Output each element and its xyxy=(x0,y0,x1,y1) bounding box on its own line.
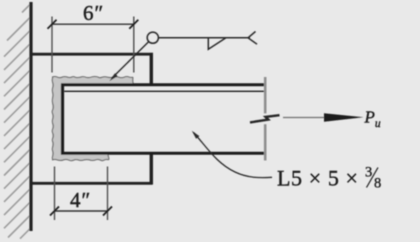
svg-text:L5 × 5 ×: L5 × 5 × xyxy=(277,166,359,191)
svg-text:6″: 6″ xyxy=(83,1,104,25)
svg-text:3: 3 xyxy=(365,165,372,181)
svg-text:8: 8 xyxy=(374,176,381,192)
svg-text:4″: 4″ xyxy=(70,188,91,212)
